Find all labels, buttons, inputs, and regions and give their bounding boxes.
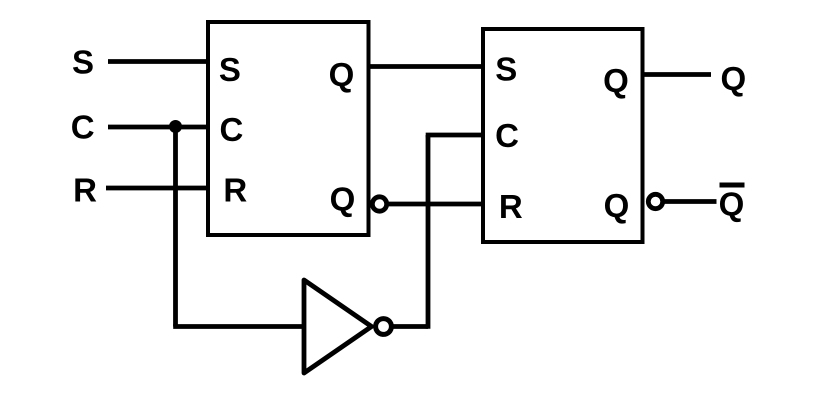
svg-text:S: S bbox=[72, 43, 94, 80]
svg-text:C: C bbox=[219, 111, 243, 148]
svg-text:S: S bbox=[219, 51, 241, 88]
wire inverter output right bbox=[392, 324, 428, 329]
wire U2 Q to output Q bbox=[643, 72, 711, 77]
svg-text:Q: Q bbox=[720, 60, 746, 97]
wire U1 Q to U2 S bbox=[368, 64, 483, 69]
wire inverter output up bbox=[426, 135, 431, 329]
svg-text:S: S bbox=[495, 50, 517, 87]
wire C branch to inverter input bbox=[173, 324, 305, 329]
wire S input to latch U1 bbox=[108, 59, 208, 64]
svg-text:C: C bbox=[495, 117, 519, 154]
latch U2 box bbox=[483, 29, 643, 242]
svg-text:R: R bbox=[73, 171, 97, 208]
svg-text:R: R bbox=[223, 171, 247, 208]
wire C input to latch U1 bbox=[108, 125, 208, 130]
inversion bubble on U2 Qbar output bbox=[648, 194, 662, 208]
svg-text:Q: Q bbox=[719, 186, 745, 223]
svg-text:C: C bbox=[71, 108, 95, 145]
overline of Qbar output label bbox=[720, 183, 745, 188]
wire U1 Qbar to U2 R bbox=[387, 202, 483, 207]
inversion bubble on U1 Qbar output bbox=[372, 197, 386, 211]
svg-text:Q: Q bbox=[330, 181, 356, 218]
wire inverter output to U2 C bbox=[426, 133, 483, 138]
wire U2 Qbar to output Qbar bbox=[663, 199, 717, 204]
latch U1 box bbox=[208, 22, 369, 235]
inversion bubble on inverter U3 output bbox=[376, 319, 392, 335]
svg-text:Q: Q bbox=[329, 56, 355, 93]
svg-text:Q: Q bbox=[604, 187, 630, 224]
svg-text:Q: Q bbox=[603, 62, 629, 99]
inverter U3 triangle bbox=[304, 280, 372, 373]
junction dot on C wire bbox=[169, 120, 182, 133]
wire C branch down from junction bbox=[173, 127, 178, 327]
wire R input to latch U1 bbox=[106, 186, 208, 191]
svg-text:R: R bbox=[499, 188, 523, 225]
